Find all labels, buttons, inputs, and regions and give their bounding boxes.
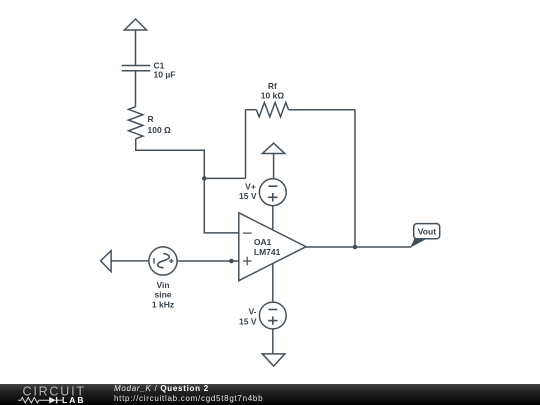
svg-text:R: R [148, 114, 154, 124]
wire [272, 329, 274, 354]
svg-text:LM741: LM741 [254, 247, 281, 257]
node flag (top antenna) [124, 19, 146, 30]
wire (V- power pin) [272, 264, 274, 303]
footer bar [0, 384, 540, 405]
node flag (V+ antenna) [262, 143, 284, 153]
svg-text:Vout: Vout [418, 227, 436, 237]
svg-text:10 kΩ: 10 kΩ [261, 90, 285, 100]
svg-text:sine: sine [154, 290, 171, 300]
wire (output) [306, 246, 411, 248]
svg-text:10 µF: 10 µF [154, 70, 176, 80]
svg-text:1 kHz: 1 kHz [152, 300, 174, 310]
wire [245, 110, 247, 179]
wire (non-inverting input) [177, 260, 239, 262]
svg-text:Vin: Vin [156, 280, 169, 290]
resistor R [129, 107, 172, 139]
wire [289, 109, 356, 111]
node flag (Vin left) [101, 251, 112, 272]
wire [111, 260, 149, 262]
junction dot (output node) [353, 245, 358, 250]
svg-text:100 Ω: 100 Ω [148, 125, 172, 135]
wire (V+ power pin) [272, 206, 274, 230]
wire [135, 71, 137, 107]
svg-text:OA1: OA1 [254, 237, 272, 247]
capacitor C1 [122, 60, 176, 79]
wire [354, 110, 356, 247]
svg-text:15 V: 15 V [239, 191, 257, 201]
svg-text:V-: V- [248, 307, 256, 317]
wire (inverting input) [204, 178, 239, 233]
svg-text:LAB: LAB [62, 395, 85, 405]
junction node A [202, 176, 207, 181]
junction dot (+ input) [229, 259, 234, 264]
svg-text:V+: V+ [245, 181, 256, 191]
ground flag (down) [262, 354, 285, 366]
source Vin sine [149, 247, 177, 310]
op-amp OA1 LM741 [239, 213, 306, 281]
source V- 15V [239, 302, 286, 329]
source V+ 15V [239, 179, 286, 206]
wire [273, 154, 275, 179]
svg-text:15 V: 15 V [239, 316, 257, 326]
wire [204, 177, 245, 179]
resistor Rf [256, 81, 288, 117]
wire [136, 139, 205, 179]
wire [135, 30, 137, 66]
wire [246, 109, 257, 111]
CircuitLab logo [0, 384, 110, 405]
Vout label flag [410, 224, 440, 248]
